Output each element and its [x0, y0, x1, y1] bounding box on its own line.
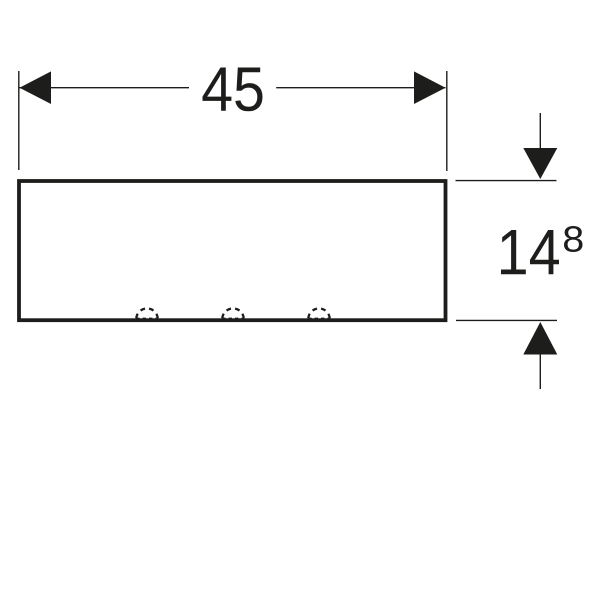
hidden cutout arc 1 (dashed semicircle) [136, 308, 158, 319]
width dimension: left extension line [18, 71, 20, 170]
height dimension label superscript 8 [564, 226, 583, 252]
hidden cutout chord 2 (dashed line) [222, 317, 244, 319]
height dimension: top extension line [456, 180, 557, 182]
height dimension: upper arrow shaft [539, 113, 541, 150]
height dimension: upper arrowhead (pointing down) [523, 148, 557, 179]
height dimension: bottom extension line [456, 319, 557, 321]
cabinet outline (front view rectangle) [19, 181, 446, 320]
width dimension: right extension line [446, 71, 448, 171]
height dimension label 14 [501, 230, 559, 274]
width dimension: right arrowhead [414, 71, 446, 104]
hidden cutout arc 2 (dashed semicircle) [222, 308, 244, 319]
width dimension line, left segment [20, 87, 190, 89]
hidden cutout chord 3 (dashed line) [308, 317, 330, 319]
hidden cutout chord 1 (dashed line) [136, 317, 158, 319]
height dimension: lower arrowhead (pointing up) [523, 322, 557, 355]
width dimension line, right segment [276, 87, 445, 89]
hidden cutout arc 3 (dashed semicircle) [308, 308, 330, 319]
width dimension: left arrowhead [20, 71, 52, 104]
height dimension: lower arrow shaft [539, 353, 541, 389]
width dimension label 45 [203, 68, 263, 112]
